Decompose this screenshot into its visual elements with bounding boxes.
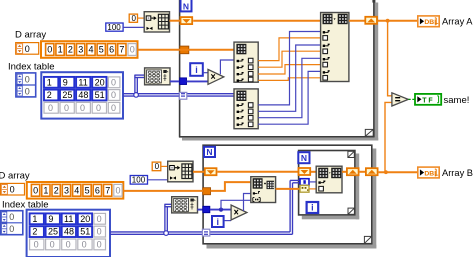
for-loop 3 shadow <box>302 154 359 220</box>
wire D array 2 into loop 2 <box>123 190 203 192</box>
D array elements (bottom) <box>31 184 122 196</box>
wires Index Array 2 outputs to Replace Array Subset 1 (blue) <box>258 32 320 125</box>
Array A indicator <box>418 16 439 27</box>
wire Array B branch up to Equal <box>385 102 392 172</box>
wire Array Subset output to loop 3 tunnel <box>276 188 301 190</box>
tunnel D array (loop 1, solid orange) <box>180 46 189 54</box>
svg-text:25: 25 <box>62 90 72 100</box>
svg-text:0: 0 <box>155 162 160 171</box>
Index table index displays (top) <box>16 73 36 97</box>
svg-text:0: 0 <box>111 103 116 113</box>
svg-text:0: 0 <box>25 44 30 54</box>
wire Initialize Array 1 to left shift register <box>170 20 181 22</box>
wire index tunnel to Replace Array Subset 2 <box>309 181 316 183</box>
svg-text:6: 6 <box>109 45 114 55</box>
2D wire branch up to Transpose 1 <box>134 75 144 94</box>
Array B indicator <box>418 167 439 178</box>
svg-text:0: 0 <box>130 45 135 55</box>
wire junction (2D array, bottom) <box>164 231 169 236</box>
D array control frame (top) <box>41 41 138 58</box>
iteration terminal i (loop 3) <box>307 202 319 213</box>
svg-text:0: 0 <box>25 74 30 84</box>
for-loop 1 shadow <box>182 3 378 141</box>
svg-text:i: i <box>195 65 198 75</box>
D array control frame (bottom) <box>27 182 124 199</box>
wire i to Multiply 1 <box>203 72 208 74</box>
loop 2 count terminal N <box>204 147 215 157</box>
numeric constant 100 (bottom, I32) <box>130 176 147 185</box>
tunnel transposed array (loop 1, solid blue) <box>180 78 187 85</box>
wire Equal to same? indicator (boolean, dashed green) <box>409 98 416 100</box>
2D wire Index table 2 into loop 2 <box>110 180 300 234</box>
svg-text:11: 11 <box>78 77 87 87</box>
Index table frame (top) <box>41 72 123 118</box>
D array control index display (bottom) <box>1 183 25 195</box>
wire Array A branch down to Equal <box>388 21 392 96</box>
wire Initialize Array 2 to left shift register (loop 2) <box>193 171 205 173</box>
svg-text:20: 20 <box>80 214 90 224</box>
svg-text:0: 0 <box>64 103 69 113</box>
wire junction Array A <box>386 19 390 23</box>
wire D array tunnel to Array Subset <box>211 182 251 191</box>
Replace Array Subset node 2 <box>316 166 342 193</box>
svg-text:0: 0 <box>33 186 38 196</box>
Initialize Array node 1 <box>144 12 169 32</box>
wire shift register loop3 to Replace Array Subset 2 <box>311 171 316 173</box>
svg-text:2: 2 <box>32 227 37 237</box>
svg-text:3: 3 <box>78 45 83 55</box>
svg-text:D array: D array <box>15 30 46 41</box>
svg-text:5: 5 <box>99 45 104 55</box>
wire Multiply 1 output to Index Array 1 <box>220 60 234 74</box>
svg-text:0: 0 <box>82 240 87 250</box>
svg-text:0: 0 <box>10 185 15 195</box>
svg-text:i: i <box>217 217 220 227</box>
svg-text:0: 0 <box>9 212 14 222</box>
wire junction (blue, loop 2) <box>219 208 223 212</box>
svg-text:0: 0 <box>111 77 116 87</box>
numeric constant 100 (top, I32) <box>106 23 123 32</box>
svg-text:Index table: Index table <box>8 62 54 73</box>
wire subset tunnel to Replace Array Subset 2 <box>309 188 316 190</box>
wire junction branch to Array Subset length input <box>221 200 251 209</box>
Multiply node 2 <box>231 205 247 220</box>
svg-text:0: 0 <box>96 103 101 113</box>
tunnel index row (loop 3, auto-index blue) <box>300 179 309 186</box>
wire shift register to Array A indicator <box>378 20 418 22</box>
for-loop 2 border <box>203 145 372 244</box>
svg-text:2: 2 <box>54 186 59 196</box>
Index Array node 1 (upper) <box>234 42 258 82</box>
svg-text:100: 100 <box>132 176 146 185</box>
iteration terminal i (loop 1) <box>190 63 203 76</box>
svg-text:0: 0 <box>97 240 102 250</box>
svg-text:0: 0 <box>97 214 102 224</box>
wire constant 0 to Initialize Array 1 <box>138 17 145 19</box>
svg-text:1: 1 <box>32 214 37 224</box>
svg-text:i: i <box>311 203 314 213</box>
svg-text:Array A: Array A <box>442 17 473 27</box>
for-loop 2 shadow <box>207 149 377 249</box>
shift register right (loop 3) <box>347 168 359 175</box>
svg-text:0: 0 <box>25 86 30 96</box>
svg-text:0: 0 <box>97 227 102 237</box>
for-loop 1 border <box>179 0 375 137</box>
shift register right (loop 2) <box>366 168 378 175</box>
shift register left (loop 2) <box>205 168 217 175</box>
svg-text:100: 100 <box>107 23 121 32</box>
TF indicator same! <box>415 94 441 105</box>
svg-text:N: N <box>301 153 307 163</box>
wire Replace Array Subset 2 to shift register (loop 3) <box>342 171 347 173</box>
wire Transpose 1 to tunnel <box>170 80 180 82</box>
Index Array node 2 (lower) <box>234 89 258 129</box>
Index table cells (bottom) <box>30 213 106 249</box>
Transpose 2D Array node 2 <box>172 197 198 213</box>
svg-text:51: 51 <box>95 90 105 100</box>
svg-text:9: 9 <box>63 77 68 87</box>
svg-text:20: 20 <box>95 77 105 87</box>
wire shift register loop2 to loop3 <box>218 171 299 173</box>
tunnel subset (loop 3, auto-index orange) <box>300 185 309 192</box>
Index table index displays (bottom) <box>0 211 22 235</box>
svg-text:7: 7 <box>105 186 110 196</box>
tunnel 2D index table (loop 2, hollow) <box>202 229 209 236</box>
Transpose 2D Array node 1 <box>145 68 170 85</box>
svg-text:4: 4 <box>88 45 93 55</box>
svg-text:11: 11 <box>64 214 73 224</box>
svg-text:1: 1 <box>43 186 48 196</box>
svg-text:1: 1 <box>47 77 52 87</box>
svg-text:same!: same! <box>444 95 470 106</box>
tunnel D array (loop 2, solid orange) <box>203 188 211 195</box>
wire i to Multiply 2 <box>224 220 231 222</box>
2D wire Index table to loop 1 <box>123 94 234 96</box>
Initialize Array node 2 <box>168 161 193 182</box>
wire Multiply 2 output to Array Subset index input <box>244 194 251 211</box>
svg-text:N: N <box>183 1 189 11</box>
svg-text:9: 9 <box>48 214 53 224</box>
svg-text:2: 2 <box>47 90 52 100</box>
svg-text:0: 0 <box>66 240 71 250</box>
Array Subset node <box>251 177 276 203</box>
loop 3 count terminal N <box>298 152 309 163</box>
wire Transpose 2 to tunnel <box>198 209 204 211</box>
wire Replace Array Subset 1 to right shift register <box>349 20 365 22</box>
svg-text:5: 5 <box>85 186 90 196</box>
wire shift register to Replace Array Subset 1 <box>193 20 320 22</box>
svg-text:T F: T F <box>422 97 433 104</box>
svg-text:Array B: Array B <box>442 168 473 178</box>
svg-text:0: 0 <box>50 240 55 250</box>
svg-text:0: 0 <box>132 14 137 23</box>
2D wire branch up to Transpose 2 <box>164 204 171 231</box>
Replace Array Subset node 1 (expanded) <box>321 13 349 82</box>
svg-text:7: 7 <box>119 45 124 55</box>
Index table cells (top) <box>44 77 120 113</box>
svg-text:0: 0 <box>34 240 39 250</box>
svg-text:0: 0 <box>80 103 85 113</box>
shift register left (loop 3) <box>299 168 311 175</box>
svg-text:25: 25 <box>48 227 58 237</box>
svg-text:2: 2 <box>68 45 73 55</box>
svg-text:0: 0 <box>47 45 52 55</box>
svg-text:N: N <box>206 147 212 157</box>
svg-text:3: 3 <box>64 186 69 196</box>
iteration terminal i (loop 2) <box>212 216 224 227</box>
svg-text:51: 51 <box>80 227 90 237</box>
svg-text:1: 1 <box>58 45 63 55</box>
for-loop 3 corner handle top-right <box>348 151 354 157</box>
D array elements (top) <box>46 44 137 56</box>
tunnel transposed array (loop 2, solid blue) <box>203 206 210 212</box>
D array control index display (top) <box>16 43 39 55</box>
wire tunnel to Multiply 2 and junction <box>210 209 231 211</box>
for-loop 3 corner handle bottom-right <box>348 208 354 214</box>
wire shift register loop 3 to loop 2 <box>360 171 366 173</box>
svg-text:48: 48 <box>78 90 88 100</box>
for-loop 2 corner handle bottom-right <box>364 236 371 243</box>
wire constant 100 to Initialize Array 2 <box>148 179 168 181</box>
numeric constant 0 (bottom, DBL) <box>152 162 161 171</box>
wire tunnel to Multiply 1 <box>187 80 209 82</box>
for-loop 3 border <box>299 151 355 215</box>
svg-text:0: 0 <box>9 224 14 234</box>
svg-text:0: 0 <box>111 90 116 100</box>
numeric constant 0 (top, DBL) <box>129 14 137 23</box>
Index table frame (bottom) <box>27 210 110 257</box>
wire shift register loop 2 to Array B <box>379 171 418 173</box>
wire constant 0 to Initialize Array 2 <box>161 165 168 167</box>
wire constant 100 to Initialize Array 1 <box>123 26 144 28</box>
svg-text:6: 6 <box>95 186 100 196</box>
svg-text:D array: D array <box>0 171 30 182</box>
wire junction (2D array, top) <box>134 93 139 98</box>
wire junction Array B <box>384 170 388 174</box>
Multiply node 1 <box>208 69 224 84</box>
for-loop 1 corner handle bottom-right <box>365 129 373 136</box>
Equal node <box>392 93 408 106</box>
svg-text:0: 0 <box>48 103 53 113</box>
svg-text:48: 48 <box>64 227 74 237</box>
wire D array to Index Array 1 <box>138 49 235 51</box>
shift register right (loop 1) <box>365 17 377 24</box>
tunnel 2D index table (loop 1, hollow) <box>179 92 186 99</box>
wires Index Array 1 outputs to Replace Array Subset 1 (orange) <box>258 38 320 81</box>
shift register left (loop 1) <box>181 17 193 24</box>
loop 1 count terminal N <box>181 0 192 11</box>
for-loop 1 top-right corner tip <box>372 0 375 3</box>
svg-text:4: 4 <box>74 186 79 196</box>
svg-text:0: 0 <box>115 186 120 196</box>
